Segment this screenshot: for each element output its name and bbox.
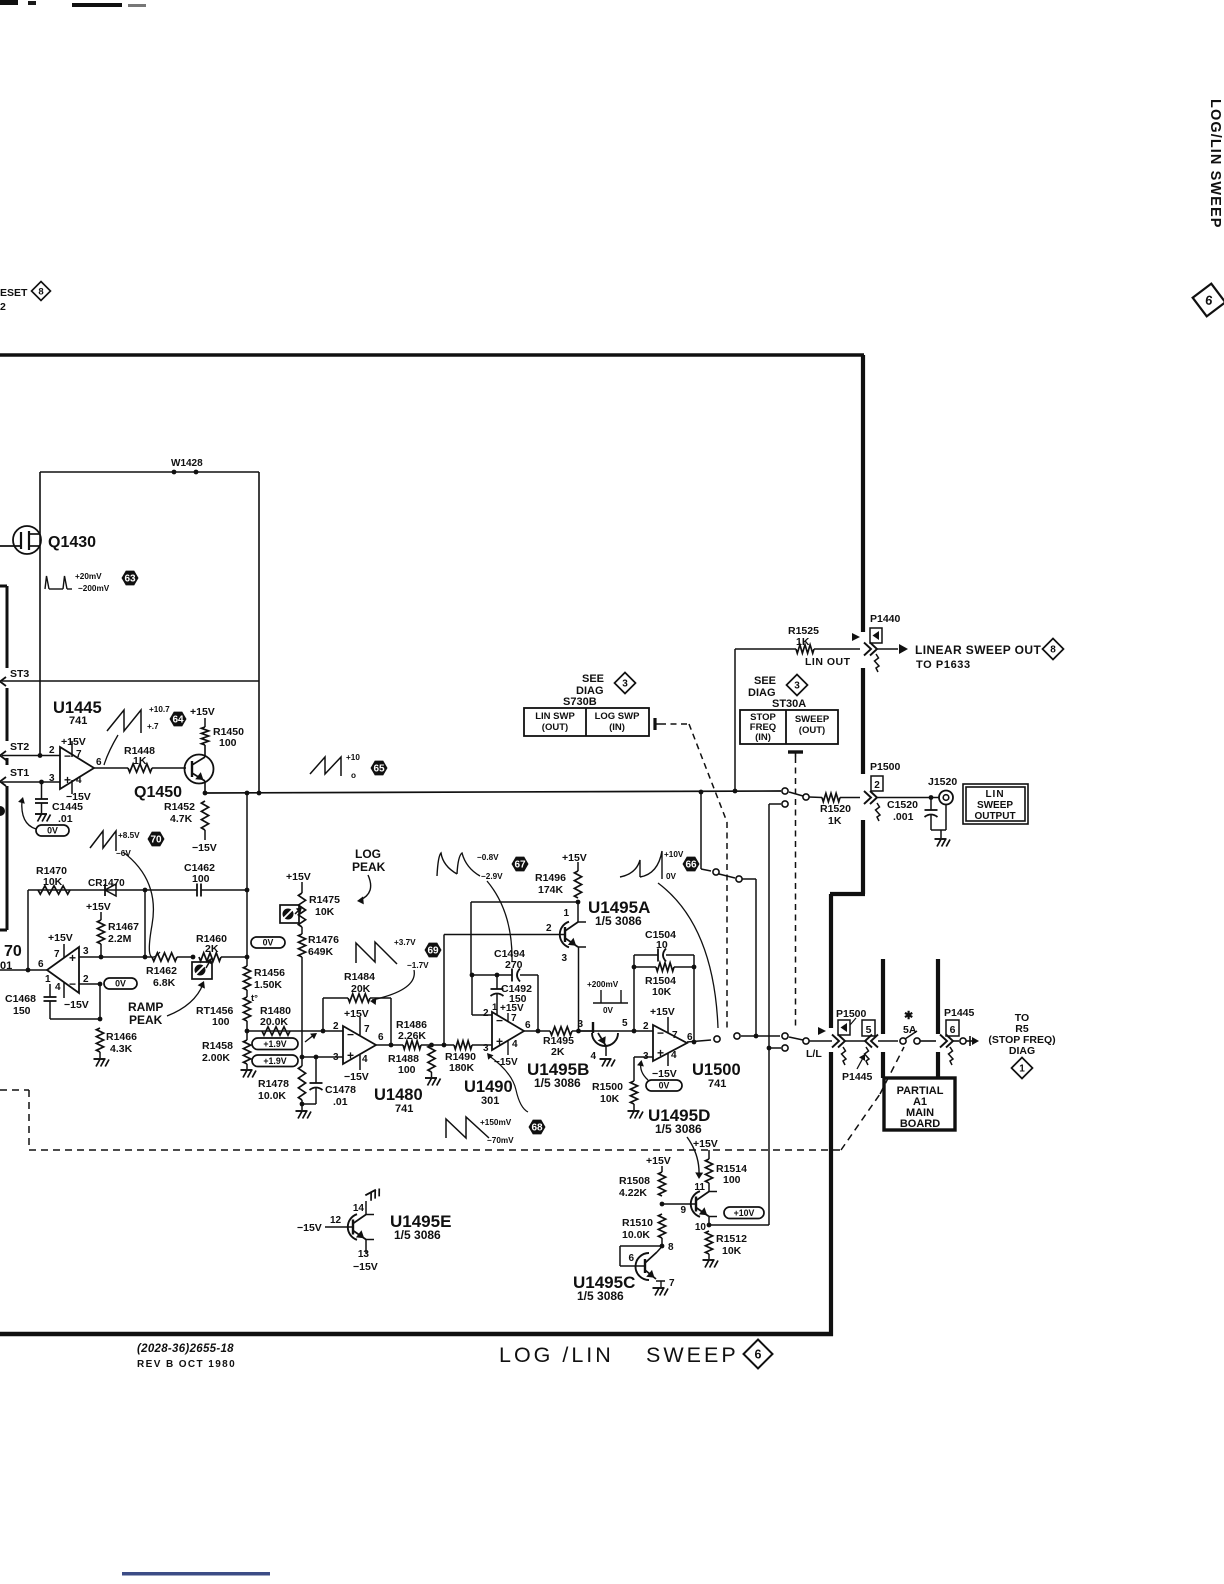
ground U1495C — [660, 1281, 662, 1287]
wire R1525 branch — [734, 649, 736, 791]
svg-text:R1496: R1496 — [535, 872, 566, 884]
connector P1500 L/L — [832, 1035, 839, 1048]
resistor R1484 — [348, 994, 370, 1002]
svg-text:P1440: P1440 — [870, 613, 901, 625]
junction C1494 left — [470, 973, 475, 978]
P1445 index box 5 — [862, 1020, 875, 1036]
svg-text:+1.9V: +1.9V — [263, 1039, 286, 1049]
ground J1520 — [935, 838, 947, 840]
S730B linkage terminal — [653, 718, 656, 730]
svg-text:+15V: +15V — [693, 1138, 718, 1150]
svg-text:1/5 3086: 1/5 3086 — [394, 1228, 441, 1242]
wire U1495A base — [444, 934, 565, 936]
svg-text:1: 1 — [45, 974, 51, 985]
junction U1495A base tap — [442, 1043, 447, 1048]
svg-text:+: + — [64, 773, 71, 787]
junction C1462 right node — [245, 888, 250, 893]
svg-text:+15V: +15V — [650, 1006, 675, 1018]
svg-text:+15V: +15V — [61, 736, 86, 748]
thermistor RT1456 — [246, 990, 248, 997]
svg-text:R1475: R1475 — [309, 894, 340, 906]
transistor U1495C — [644, 1259, 646, 1273]
svg-text:5: 5 — [866, 1024, 872, 1036]
svg-text:.01: .01 — [58, 813, 73, 825]
wire collector node to C1494 loop — [471, 901, 578, 903]
svg-text:2: 2 — [333, 1021, 339, 1032]
svg-text:1/5 3086: 1/5 3086 — [534, 1076, 581, 1090]
op-amp U1445 — [60, 747, 94, 789]
scan marks top edge — [0, 0, 18, 5]
ground R1500 — [633, 1104, 635, 1110]
svg-text:P1445: P1445 — [842, 1071, 873, 1083]
svg-text:(OUT): (OUT) — [542, 722, 568, 733]
svg-text:3: 3 — [794, 681, 800, 692]
svg-text:OUTPUT: OUTPUT — [974, 811, 1015, 822]
svg-text:6: 6 — [96, 757, 102, 768]
svg-text:+: + — [496, 1035, 503, 1049]
wire U1500 output to switch — [687, 1040, 711, 1042]
svg-text:6.8K: 6.8K — [153, 977, 176, 989]
testpoint +10V — [724, 1207, 764, 1219]
svg-text:3: 3 — [622, 679, 628, 690]
adjust symbol R1460 — [192, 962, 212, 979]
waveform sawtooth 65 — [310, 757, 341, 776]
resistor R1462 — [152, 953, 177, 961]
svg-text:4.3K: 4.3K — [110, 1043, 133, 1055]
wire pin2 node down — [99, 984, 101, 1019]
svg-text:1: 1 — [1019, 1064, 1025, 1075]
svg-text:1/5 3086: 1/5 3086 — [577, 1289, 624, 1303]
supply +15V R1450 — [204, 718, 206, 727]
resistor R1488 — [428, 1045, 435, 1072]
svg-text:12: 12 — [330, 1215, 342, 1226]
switch box ST30A — [740, 710, 838, 744]
junction R1496 bottom — [576, 900, 581, 905]
connector arrow ST1 — [0, 777, 6, 786]
svg-text:100: 100 — [398, 1064, 416, 1076]
wire W1428 feedback loop (rectangle route) — [39, 472, 41, 756]
squiggle P1445 — [949, 1047, 954, 1065]
svg-text:301: 301 — [481, 1095, 499, 1107]
ground R1478 — [301, 1104, 303, 1110]
capacitor C1504 — [657, 949, 659, 962]
right margin diagram number diamond 6 — [1190, 281, 1224, 318]
squiggle P1500 sweep — [876, 803, 881, 821]
svg-text:+15V: +15V — [48, 932, 73, 944]
wire R1467 bottom to input row — [100, 944, 102, 957]
waveform badge 67 — [512, 857, 529, 872]
capacitor C1520 — [930, 798, 932, 811]
junction R1480 / feedback node — [321, 1029, 326, 1034]
supply +15V R1514 — [708, 1150, 710, 1159]
switch L/L contact lower — [782, 1045, 788, 1051]
marker arrow P1440 — [852, 633, 860, 641]
leader waveform 66 to switch — [658, 883, 718, 1028]
wire LINEAR SWEEP OUT — [877, 648, 898, 650]
svg-text:10: 10 — [656, 939, 668, 951]
svg-text:(IN): (IN) — [609, 722, 625, 733]
connector J1520 — [939, 791, 953, 805]
svg-text:−15V: −15V — [652, 1068, 677, 1080]
wire x302 summing node — [302, 1056, 343, 1058]
resistor R1452 — [201, 801, 208, 830]
ST30A linkage dashed — [795, 757, 797, 1030]
pin dot on off-page box — [0, 806, 5, 816]
off-page box (left, sweep generator) right edge — [6, 586, 9, 668]
svg-text:10.0K: 10.0K — [622, 1229, 650, 1241]
U1470 pin 7 +15V — [63, 944, 65, 958]
junction C1492 top — [495, 973, 500, 978]
svg-text:69: 69 — [427, 945, 439, 956]
svg-text:5: 5 — [622, 1018, 628, 1029]
svg-text:R1510: R1510 — [622, 1217, 653, 1229]
resistor R1450 — [201, 727, 208, 745]
svg-text:U1500: U1500 — [692, 1061, 741, 1079]
resistor R1458 — [243, 1040, 250, 1064]
junction R1467 node — [99, 955, 104, 960]
diamond 1 stop freq — [1012, 1058, 1033, 1079]
svg-text:LINEAR SWEEP OUT: LINEAR SWEEP OUT — [915, 643, 1041, 657]
diamond 8 linear sweep — [1043, 639, 1064, 660]
svg-text:−15V: −15V — [297, 1222, 322, 1234]
leader from waveform 64 to output wire — [104, 735, 118, 765]
svg-text:P1500: P1500 — [870, 761, 901, 773]
svg-text:SWEEP: SWEEP — [977, 800, 1013, 811]
svg-text:10.0K: 10.0K — [258, 1090, 286, 1102]
svg-text:+10: +10 — [346, 753, 360, 762]
svg-text:1K: 1K — [796, 636, 810, 648]
ground U1495E top — [365, 1188, 382, 1202]
jumper W1428 terminal dots — [172, 470, 177, 475]
wire U1445 output to R1448 — [94, 767, 128, 769]
wire U1495A collector — [577, 902, 579, 922]
switch SWEEP OUT common — [803, 794, 809, 800]
connector P1445 — [940, 1035, 947, 1048]
resistor R1448 — [128, 764, 152, 772]
U1490 pin 7 +15V — [507, 1013, 509, 1021]
svg-text:741: 741 — [69, 715, 87, 727]
svg-text:6: 6 — [38, 959, 44, 970]
leader waveform 69 to R1484 — [372, 970, 414, 1000]
svg-text:o: o — [351, 771, 356, 780]
svg-text:−: − — [69, 977, 76, 991]
resistor R1470 — [38, 886, 70, 894]
junction R1525 tap — [733, 789, 738, 794]
connector P1445 mate — [865, 1035, 872, 1048]
P1445 index box 6 — [946, 1020, 959, 1036]
svg-text:−15V: −15V — [353, 1261, 378, 1273]
junction loop left — [632, 965, 637, 970]
switch S730B upper contact a — [713, 869, 719, 875]
svg-text:.01: .01 — [333, 1096, 348, 1108]
switch SWEEP OUT blade — [789, 792, 803, 796]
op-amp U1470 (output left) — [47, 947, 79, 993]
svg-text:−: − — [496, 1013, 503, 1027]
junction Q1450 emitter on sweep line — [203, 791, 208, 796]
wire U1495C base loop — [620, 1245, 662, 1247]
svg-text:(2028-36)2655-18: (2028-36)2655-18 — [137, 1343, 234, 1355]
wire common to P1500 — [809, 1040, 832, 1042]
svg-text:RAMP: RAMP — [128, 1000, 163, 1014]
svg-text:2: 2 — [546, 923, 552, 934]
svg-text:−200mV: −200mV — [78, 584, 110, 593]
resistor R1456 — [243, 966, 250, 990]
svg-text:C1520: C1520 — [887, 799, 918, 811]
junction +10V node — [707, 1223, 712, 1228]
wire ST1 to U1445 pin 3 — [2, 781, 60, 783]
junction U1495D base node — [660, 1202, 665, 1207]
svg-text:70: 70 — [4, 943, 22, 960]
capacitor C1478 — [315, 1057, 317, 1083]
squiggle P1445 L/L — [865, 1047, 870, 1065]
junction R1466 top node — [98, 1017, 103, 1022]
capacitor C1494 — [511, 969, 513, 982]
squiggle P1500 L/L — [842, 1047, 847, 1065]
leader 0V to pin3 wire — [641, 1062, 648, 1080]
transistor U1495D — [695, 1197, 697, 1212]
leader 0V oval to ST1 wire — [22, 800, 36, 829]
transistor U1495E — [352, 1220, 354, 1235]
wire U1480 out row — [376, 1044, 403, 1046]
S730B linkage dashed — [660, 723, 689, 725]
junction feedback left — [26, 968, 31, 973]
wire RT1456 to R1458 — [246, 1021, 248, 1040]
wire contact b to x756 — [742, 878, 756, 880]
wire R1510 bottom — [661, 1238, 663, 1246]
switch 5A contact a — [900, 1038, 906, 1044]
svg-text:70: 70 — [150, 834, 162, 845]
svg-text:4: 4 — [76, 775, 82, 786]
svg-text:−15V: −15V — [64, 999, 89, 1011]
svg-text:+8.5V: +8.5V — [118, 831, 140, 840]
junction C1445 tap — [39, 780, 44, 785]
A1 board bar left — [881, 959, 885, 1034]
testpoint 0V (U1470 pin 2) — [104, 978, 137, 989]
svg-text:+200mV: +200mV — [587, 980, 619, 989]
svg-text:(IN): (IN) — [755, 732, 771, 743]
svg-text:R1466: R1466 — [106, 1031, 137, 1043]
svg-text:8: 8 — [38, 286, 43, 297]
switch S730B lower contact a — [714, 1036, 720, 1042]
supply +15V R1467 — [100, 912, 102, 920]
op-amp U1500 — [653, 1025, 687, 1061]
svg-text:+20mV: +20mV — [75, 572, 102, 581]
junction sweep line x259 — [257, 791, 262, 796]
svg-text:14: 14 — [353, 1203, 365, 1214]
svg-text:R1508: R1508 — [619, 1175, 650, 1187]
svg-text:−15V: −15V — [344, 1071, 369, 1083]
svg-text:R1452: R1452 — [164, 801, 195, 813]
P1500 index box 2 — [871, 776, 883, 791]
U1500 pin 4 -15V — [667, 1053, 669, 1066]
svg-text:11: 11 — [694, 1182, 705, 1193]
svg-text:+1.9V: +1.9V — [263, 1056, 286, 1066]
svg-text:3: 3 — [83, 946, 89, 957]
switch S730B lower contact b — [734, 1033, 740, 1039]
resistor R1525 — [796, 645, 814, 653]
svg-text:6: 6 — [950, 1024, 956, 1036]
svg-text:7: 7 — [669, 1278, 675, 1289]
waveform log-peaks 67 — [437, 853, 480, 876]
svg-text:+10.7: +10.7 — [149, 705, 170, 714]
leader waveform 67 to C1494 — [487, 881, 512, 962]
testpoint +1.9V upper — [252, 1038, 298, 1050]
transistor U1495B — [592, 1022, 594, 1033]
svg-text:2: 2 — [643, 1021, 649, 1032]
main board outline notch — [830, 892, 865, 896]
svg-text:−: − — [347, 1027, 354, 1041]
diamond 3 (S730B) — [615, 673, 636, 694]
switch SWEEP OUT contact top — [782, 788, 788, 794]
waveform badge 68 — [529, 1120, 546, 1135]
svg-text:LIN: LIN — [985, 789, 1004, 800]
svg-text:3: 3 — [577, 1019, 583, 1030]
wire x247 vertical — [246, 793, 248, 966]
junction loop left bottom — [632, 1029, 637, 1034]
svg-text:7: 7 — [76, 749, 82, 760]
svg-text:+15V: +15V — [286, 871, 311, 883]
svg-text:3: 3 — [49, 773, 55, 784]
svg-text:100: 100 — [212, 1016, 230, 1028]
A1 board bar right — [936, 959, 940, 1034]
svg-text:4.22K: 4.22K — [619, 1187, 647, 1199]
wire U1470 pin3 row — [79, 956, 152, 958]
wire U1490 out — [524, 1030, 550, 1032]
U1445 pin 4 -15V supply — [71, 780, 73, 794]
testpoint 0V (U1500 pin3) — [646, 1080, 682, 1091]
wire U1495E base — [325, 1226, 353, 1228]
resistor R1508 — [658, 1172, 665, 1196]
junction U1490 output — [536, 1029, 541, 1034]
svg-text:2.26K: 2.26K — [398, 1030, 426, 1042]
wire base U1495D — [662, 1203, 696, 1205]
svg-text:CR1470: CR1470 — [88, 878, 125, 889]
wire R1520 to P1500 — [840, 797, 860, 799]
junction CR1470/C1462 node — [143, 888, 148, 893]
resistor R1466 — [96, 1028, 103, 1052]
waveform badge 63 — [122, 571, 139, 586]
svg-text:3: 3 — [483, 1043, 489, 1054]
wire J1520 shell to ground — [945, 805, 947, 831]
svg-text:63: 63 — [124, 573, 136, 584]
leader +1.9V to summing node — [305, 1034, 315, 1042]
feedback loop C1494 — [471, 975, 473, 1015]
wire CR1470 node down to input row — [144, 890, 146, 957]
svg-text:68: 68 — [531, 1122, 543, 1133]
connector P1440 — [864, 643, 871, 656]
leader P1445 lower — [857, 1056, 864, 1069]
svg-text:ST1: ST1 — [10, 767, 29, 779]
main board outline right edge upper — [861, 355, 865, 632]
svg-text:10K: 10K — [652, 986, 672, 998]
op-amp U1490 — [492, 1012, 524, 1050]
svg-text:0V: 0V — [659, 1081, 670, 1091]
wire lower switch to L/L line — [741, 1035, 780, 1037]
waveform sawtooth (U1445 out) — [107, 710, 141, 733]
svg-text:R1520: R1520 — [820, 803, 851, 815]
wire out arrow — [966, 1040, 972, 1042]
svg-text:Q1430: Q1430 — [48, 534, 96, 551]
wire U1495D emitter — [708, 1217, 710, 1225]
svg-text:−70mV: −70mV — [487, 1136, 514, 1145]
svg-text:LOG: LOG — [355, 847, 381, 861]
svg-text:2: 2 — [483, 1008, 489, 1019]
wire U1495E emitter — [365, 1240, 367, 1254]
svg-text:LIN SWP: LIN SWP — [535, 711, 575, 722]
waveform badge 66 — [683, 857, 700, 872]
svg-text:2: 2 — [874, 780, 880, 791]
svg-text:10K: 10K — [600, 1093, 620, 1105]
op-amp U1480 — [343, 1026, 376, 1064]
svg-text:.001: .001 — [893, 811, 914, 823]
supply +15V R1496 — [577, 862, 579, 871]
resistor R1510 — [658, 1214, 665, 1238]
svg-text:1/5 3086: 1/5 3086 — [655, 1122, 702, 1136]
svg-text:4: 4 — [362, 1054, 368, 1065]
svg-text:PEAK: PEAK — [129, 1013, 163, 1027]
junction loop right — [692, 965, 697, 970]
svg-text:BOARD: BOARD — [900, 1118, 940, 1130]
resistor R1496 — [574, 871, 581, 898]
waveform badge 70 — [148, 832, 165, 847]
transistor Q1450 — [185, 755, 214, 784]
svg-text:10: 10 — [695, 1222, 707, 1233]
junction x756 on U1500 out — [754, 1034, 759, 1039]
wire R1480 row — [247, 1030, 343, 1032]
ground R1512 — [708, 1254, 710, 1259]
switch 5A blade — [905, 1031, 917, 1039]
resistor R1478 — [298, 1066, 305, 1100]
ground U1495B emitter — [600, 1058, 612, 1060]
PARTIAL A1 MAIN BOARD box — [884, 1078, 955, 1130]
svg-text:741: 741 — [708, 1078, 726, 1090]
svg-text:67: 67 — [514, 859, 526, 870]
feedback loop R1484 — [322, 998, 324, 1031]
ground R1458 — [246, 1064, 248, 1069]
svg-text:−: − — [657, 1026, 664, 1040]
wire R1478/C1478 bottom — [301, 1100, 303, 1104]
U1445 pin 7 +15V supply — [71, 741, 73, 757]
capacitor C1468 — [49, 984, 51, 997]
waveform badge 65 — [371, 761, 388, 776]
svg-text:0V: 0V — [115, 979, 126, 989]
dashed board boundary — [0, 1089, 29, 1091]
feedback loop C1504/R1504 — [633, 955, 635, 1031]
svg-text:100: 100 — [219, 737, 237, 749]
wire feedback up to R1470 row — [27, 890, 29, 970]
supply +15V R1508 — [661, 1166, 663, 1172]
svg-text:9: 9 — [680, 1205, 686, 1216]
resistor R1475 (pot) — [298, 893, 305, 927]
switch L/L common — [803, 1038, 809, 1044]
main board outline bottom edge — [0, 1332, 833, 1337]
wire U1500 pin3 — [634, 1056, 653, 1058]
junction U1495C node 8 — [660, 1244, 665, 1249]
svg-text:65: 65 — [373, 763, 385, 774]
svg-text:+: + — [657, 1046, 664, 1060]
wire lower throw — [769, 1047, 781, 1049]
svg-text:0V: 0V — [263, 938, 274, 948]
junction pin2/0V — [98, 982, 103, 987]
adjust symbol R1475 — [280, 905, 299, 923]
wire R1448 to Q1450 base — [152, 767, 186, 769]
U1500 pin 7 +15V — [667, 1017, 669, 1033]
svg-text:7: 7 — [364, 1024, 370, 1035]
box LIN SWEEP OUTPUT — [963, 784, 1028, 824]
svg-text:4: 4 — [55, 982, 61, 993]
resistor R1514 — [705, 1159, 712, 1183]
wire ramp-peak top row — [28, 889, 193, 891]
